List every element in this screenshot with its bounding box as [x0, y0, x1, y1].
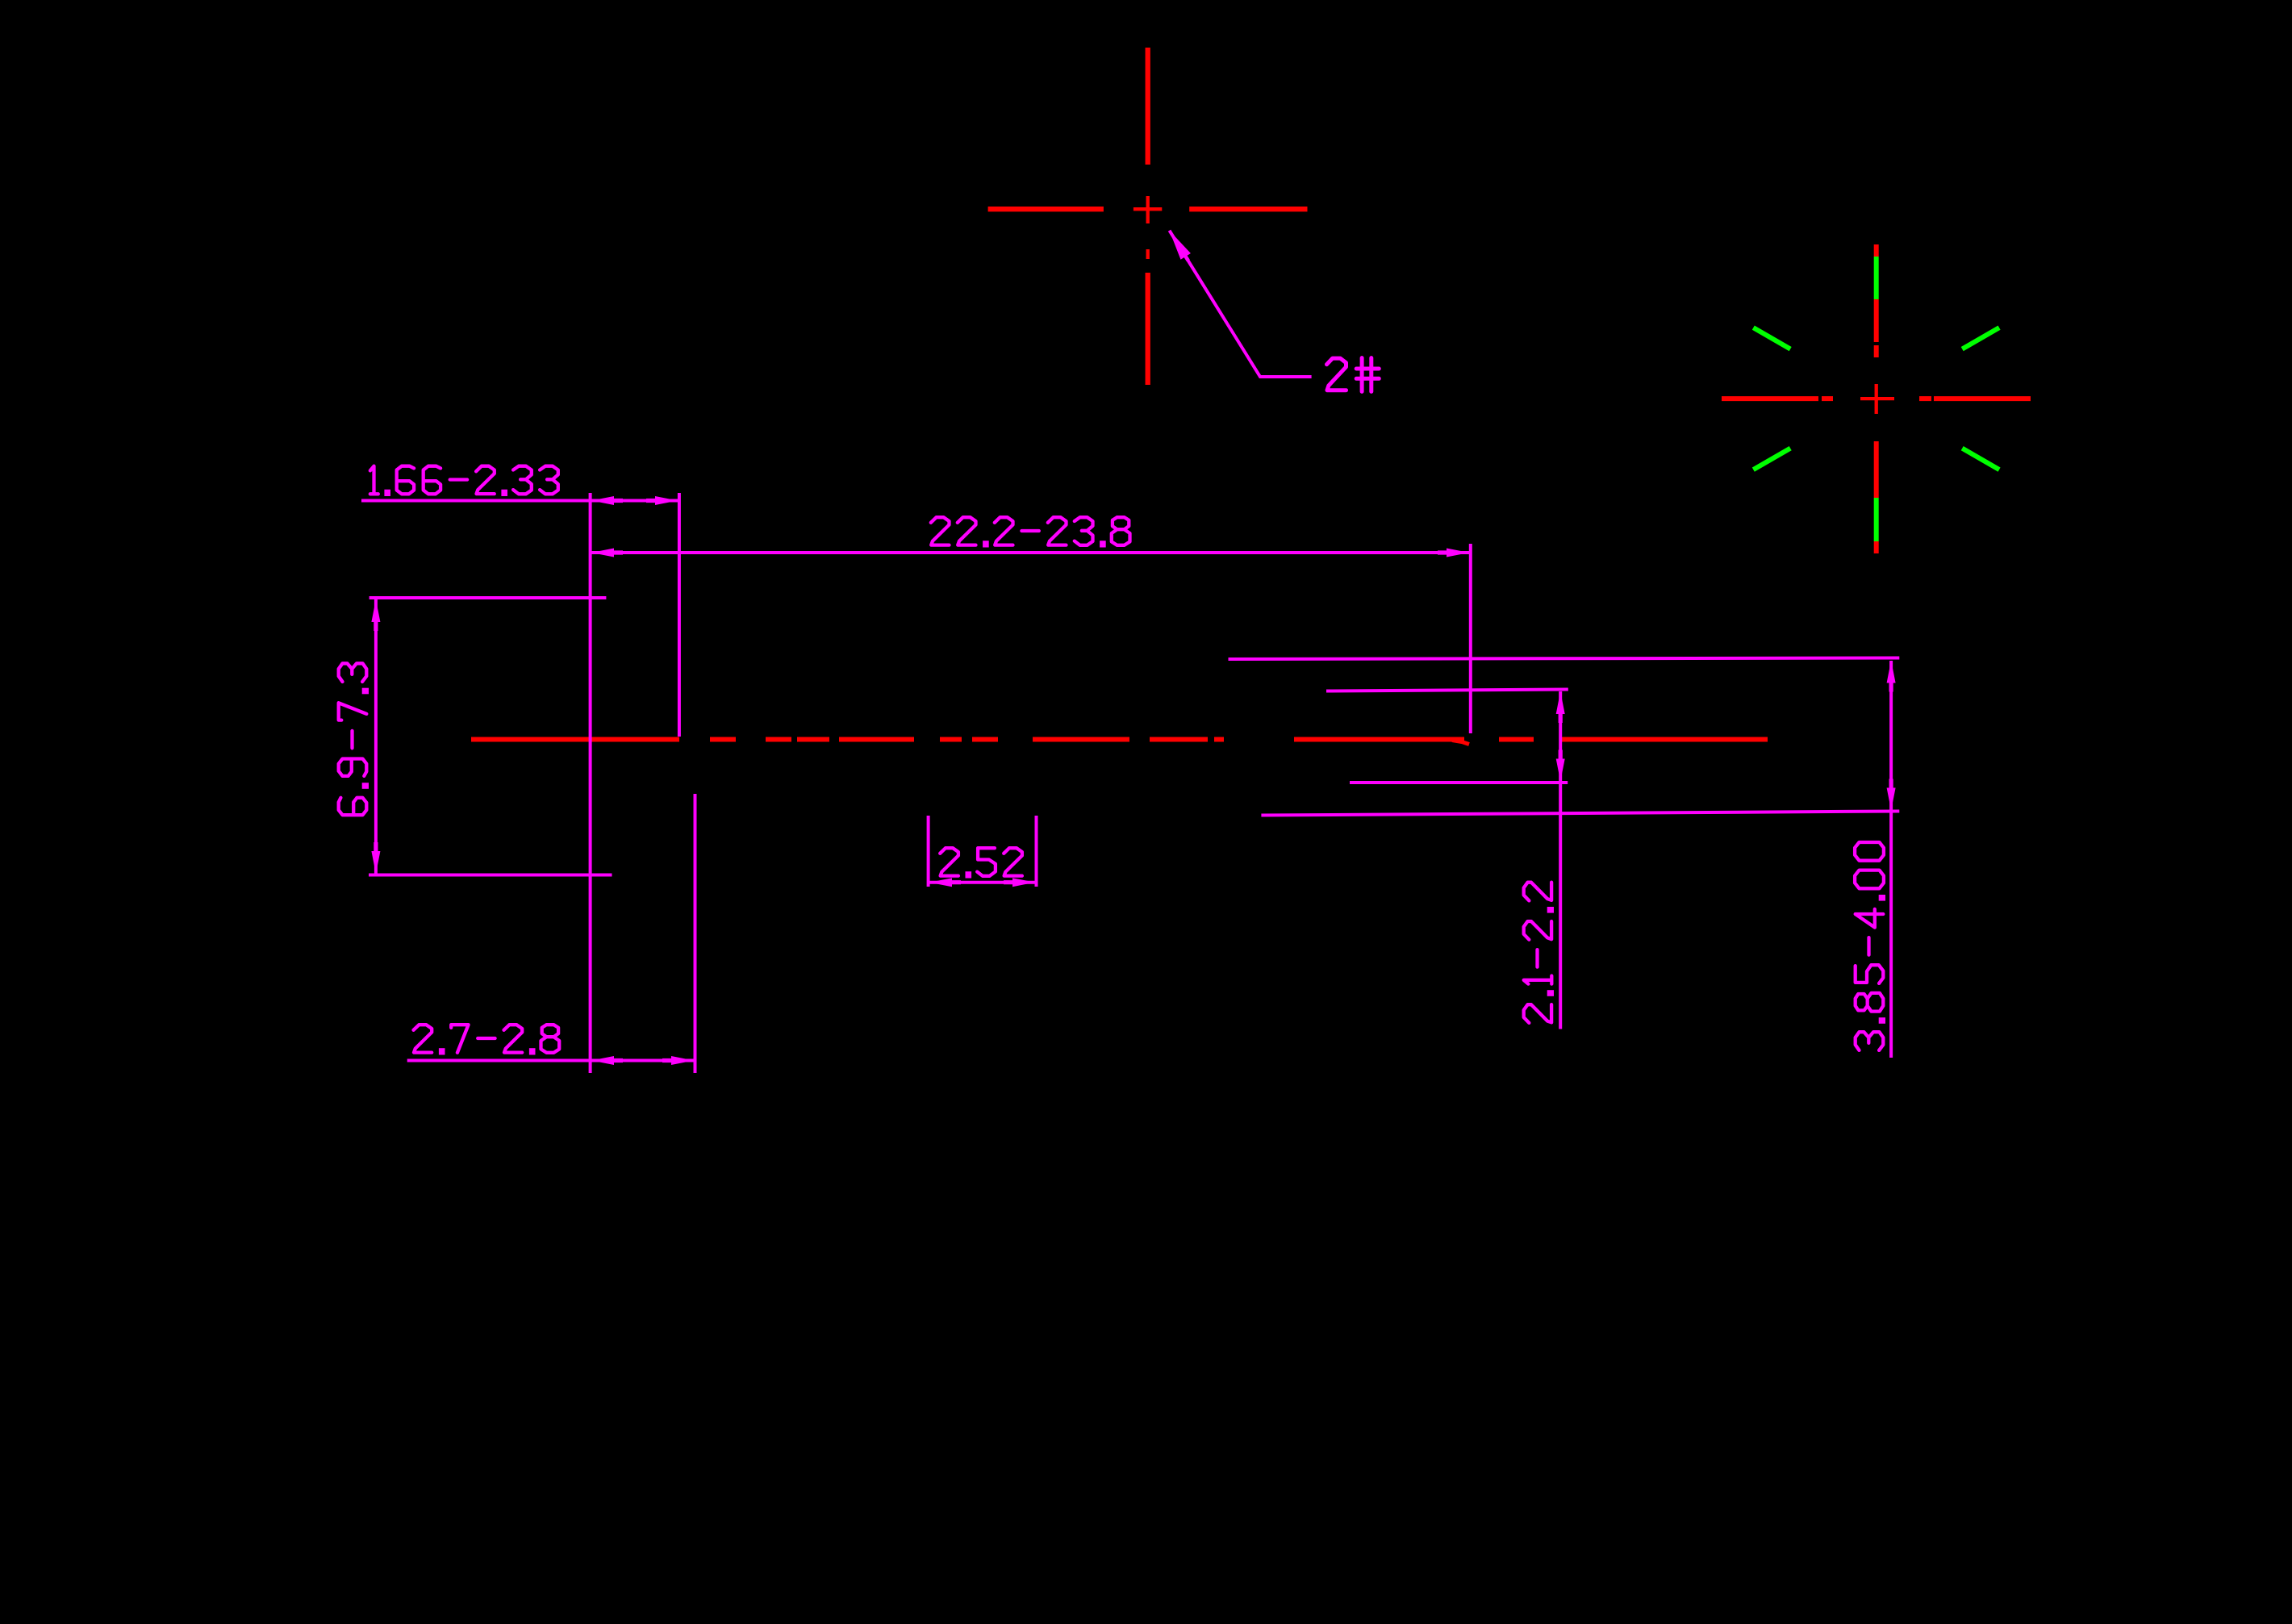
point marker starburst, green tick lower-right [1962, 449, 1999, 470]
point marker starburst, green tick up [1874, 257, 1879, 299]
dimension 2.7-2.8 right arrow [662, 1056, 694, 1065]
extension line top outer (right end of part) [1229, 658, 1900, 660]
dimension text "2.7-2.8" [414, 1025, 560, 1054]
dimension 3.85-4.00 down arrow [1887, 779, 1896, 811]
dimension 1.66-2.33 left arrow [591, 496, 623, 505]
dimension 2.1-2.2 down arrow [1556, 750, 1565, 782]
extension line bottom of 6.9-7.3 [369, 874, 612, 877]
dimension text "2.1-2.2" (rotated) [1524, 883, 1554, 1023]
extension line bottom outer [1261, 812, 1899, 816]
dimension 3.85-4.00 up arrow [1887, 661, 1896, 692]
extension line left (shoulder edge) [589, 493, 592, 1073]
dimension line 22.2-23.8 [591, 551, 1469, 554]
dimension 2.1-2.2 up arrow [1556, 691, 1565, 723]
dimension line 3.85-4.00 [1889, 661, 1893, 1058]
extension line top of 6.9-7.3 [369, 596, 607, 599]
point marker starburst, red horizontal centerline [1722, 396, 2031, 401]
point marker starburst, green tick upper-left [1753, 328, 1790, 349]
dimension text "22.2-23.8" [931, 517, 1130, 547]
extension line right of 22.2-23.8 [1469, 544, 1472, 733]
leader arrow to datum point 2# [1170, 231, 1312, 377]
dimension line 2.52 [929, 881, 1035, 884]
centerline cross (upper datum point), red vertical [1146, 48, 1150, 385]
extension line right of 1.66-2.33 [678, 493, 681, 737]
point marker starburst, green tick down [1874, 498, 1879, 541]
point marker starburst, green tick lower-left [1753, 449, 1790, 470]
dimension text "3.85-4.00" (rotated) [1855, 842, 1885, 1050]
dimension line 6.9-7.3 [374, 599, 378, 874]
dimension 2.7-2.8 left arrow [591, 1056, 623, 1065]
dimension 2.52 right arrow [1004, 878, 1035, 887]
dimension 2.52 left arrow [929, 878, 961, 887]
dimension line 2.7-2.8 [407, 1059, 695, 1062]
extension line left of 2.52 [927, 816, 930, 887]
main horizontal centerline (red, dash-dot) [471, 740, 1768, 745]
extension line top inner [1326, 690, 1568, 691]
label text "2#" [1327, 358, 1380, 392]
extension line right of 2.7-2.8 [694, 794, 697, 1073]
extension line right of 2.52 [1035, 816, 1038, 887]
dimension text "2.52" [940, 848, 1022, 878]
dimension text "6.9-7.3" (rotated) [339, 663, 369, 815]
point marker starburst, green tick upper-right [1962, 328, 1999, 349]
dimension 6.9-7.3 down arrow [371, 842, 380, 874]
dimension 6.9-7.3 up arrow [371, 599, 380, 631]
dimension 1.66-2.33 right arrow [646, 496, 678, 505]
dimension line 1.66-2.33 [361, 499, 678, 503]
dimension 22.2-23.8 right arrow [1438, 549, 1469, 557]
dimension line 2.1-2.2 [1559, 691, 1562, 1029]
dimension text "1.66-2.33" [370, 466, 558, 496]
dimension 22.2-23.8 left arrow [591, 549, 623, 557]
point marker starburst, red vertical centerline [1874, 244, 1879, 553]
extension line bottom inner [1350, 781, 1568, 784]
centerline cross (upper datum point), red horizontal [988, 207, 1308, 211]
